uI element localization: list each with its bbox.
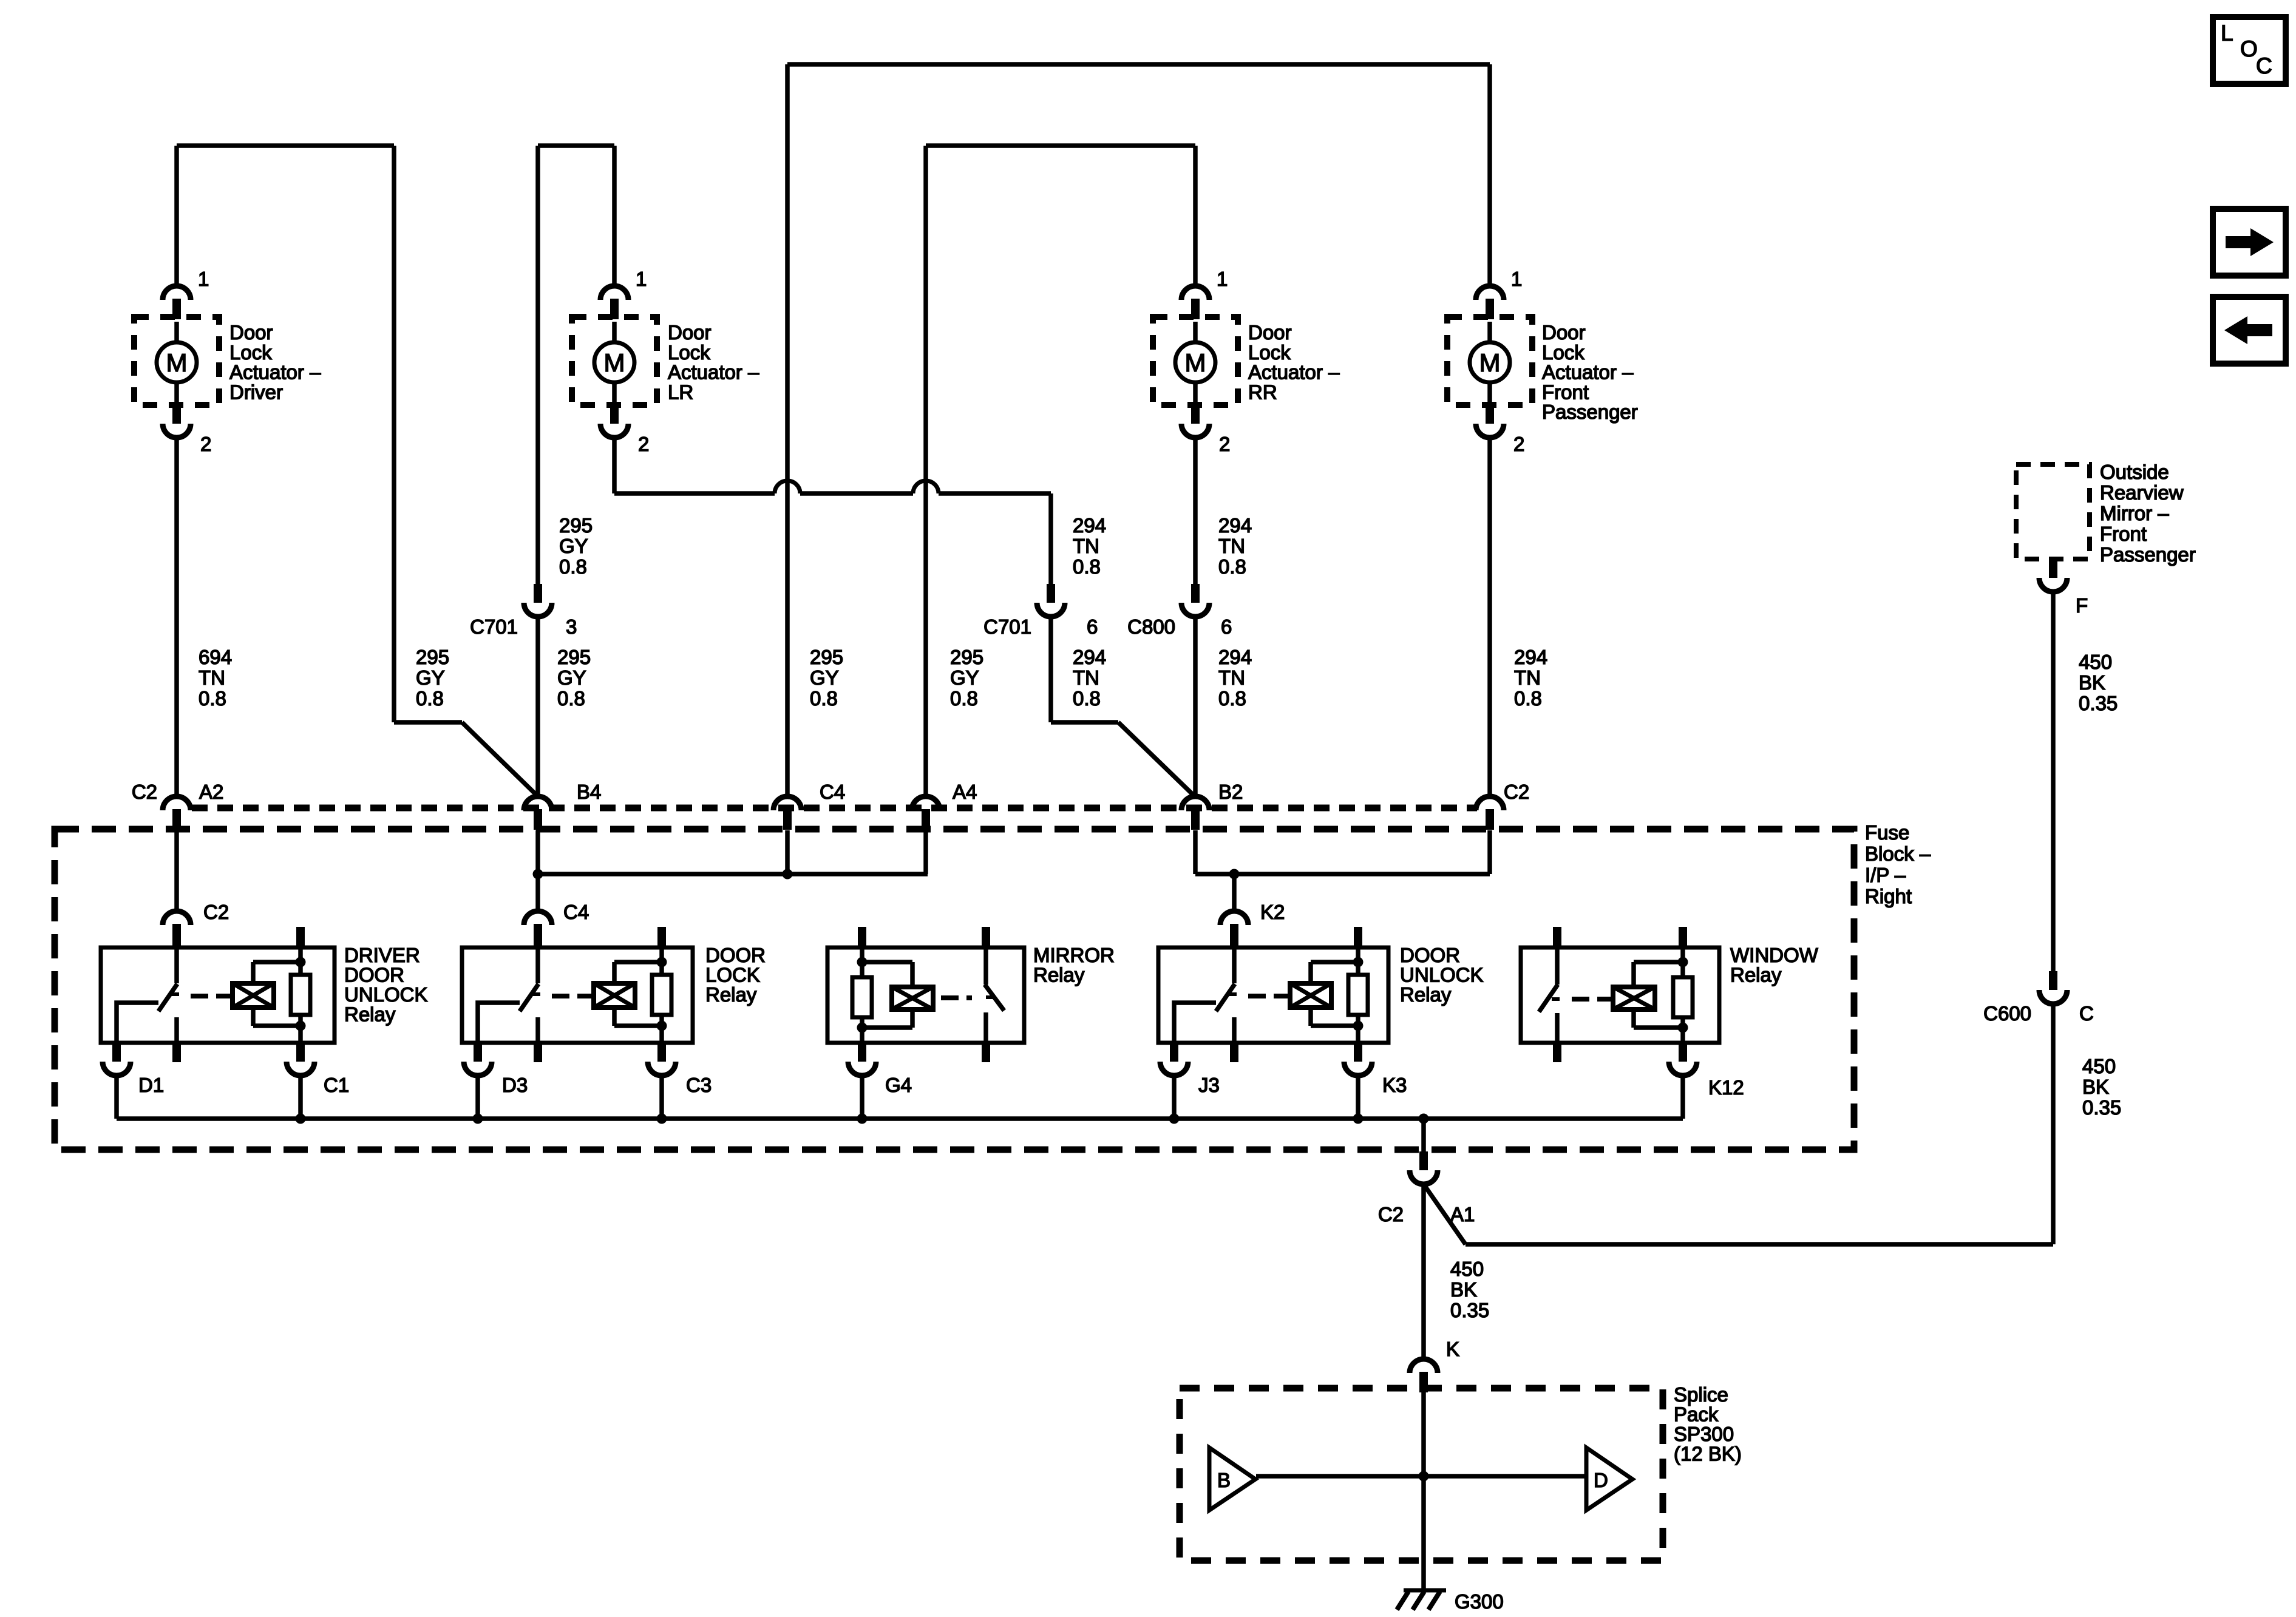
- svg-text:Driver: Driver: [229, 381, 283, 403]
- svg-text:UNLOCK: UNLOCK: [344, 983, 428, 1006]
- svg-text:Door: Door: [229, 321, 273, 344]
- svg-text:Outside: Outside: [2100, 461, 2169, 483]
- svg-text:D3: D3: [502, 1074, 528, 1096]
- svg-text:Relay: Relay: [1400, 983, 1452, 1006]
- svg-text:GY: GY: [557, 666, 586, 689]
- svg-text:(12 BK): (12 BK): [1674, 1443, 1742, 1465]
- svg-text:LR: LR: [668, 381, 693, 403]
- svg-text:D1: D1: [138, 1074, 164, 1096]
- svg-text:Actuator –: Actuator –: [1248, 361, 1340, 384]
- svg-text:0.35: 0.35: [2079, 692, 2118, 714]
- svg-text:1: 1: [1511, 268, 1522, 290]
- svg-text:C701: C701: [470, 615, 518, 638]
- svg-text:BK: BK: [2082, 1076, 2109, 1098]
- svg-text:295: 295: [557, 646, 591, 668]
- svg-text:G300: G300: [1455, 1590, 1504, 1613]
- svg-text:DOOR: DOOR: [344, 964, 404, 986]
- svg-text:B2: B2: [1218, 781, 1243, 803]
- svg-text:D: D: [1594, 1469, 1608, 1491]
- svg-text:1: 1: [198, 268, 209, 290]
- svg-text:M: M: [604, 348, 625, 377]
- svg-text:Actuator –: Actuator –: [229, 361, 321, 384]
- svg-text:DOOR: DOOR: [705, 944, 766, 966]
- svg-text:450: 450: [2082, 1055, 2116, 1077]
- svg-text:0.8: 0.8: [950, 687, 978, 710]
- svg-text:MIRROR: MIRROR: [1033, 944, 1115, 966]
- svg-text:450: 450: [2079, 651, 2112, 673]
- svg-text:K3: K3: [1382, 1074, 1407, 1096]
- svg-text:295: 295: [810, 646, 843, 668]
- svg-text:WINDOW: WINDOW: [1730, 944, 1819, 966]
- svg-text:Relay: Relay: [1033, 964, 1085, 986]
- svg-text:TN: TN: [1073, 535, 1099, 557]
- svg-text:Lock: Lock: [229, 341, 272, 364]
- svg-text:C701: C701: [983, 615, 1031, 638]
- svg-text:B4: B4: [577, 781, 601, 803]
- svg-text:Relay: Relay: [1730, 964, 1782, 986]
- svg-text:C2: C2: [1504, 781, 1529, 803]
- svg-text:C3: C3: [686, 1074, 712, 1096]
- svg-text:C: C: [2079, 1002, 2094, 1025]
- svg-text:3: 3: [566, 615, 577, 638]
- svg-text:294: 294: [1218, 514, 1252, 537]
- svg-text:1: 1: [636, 268, 647, 290]
- svg-text:TN: TN: [1218, 666, 1245, 689]
- svg-text:C600: C600: [1983, 1002, 2031, 1025]
- svg-text:2: 2: [200, 433, 211, 455]
- svg-text:TN: TN: [199, 666, 225, 689]
- svg-text:G4: G4: [885, 1074, 912, 1096]
- svg-text:Relay: Relay: [705, 983, 757, 1006]
- svg-text:2: 2: [1513, 433, 1524, 455]
- svg-text:B: B: [1217, 1469, 1231, 1491]
- svg-text:M: M: [166, 348, 188, 377]
- svg-text:0.8: 0.8: [1514, 687, 1542, 710]
- svg-text:TN: TN: [1073, 666, 1099, 689]
- svg-text:Door: Door: [668, 321, 712, 344]
- svg-text:0.8: 0.8: [1073, 687, 1101, 710]
- svg-text:C2: C2: [203, 901, 229, 923]
- svg-text:RR: RR: [1248, 381, 1277, 403]
- svg-text:C1: C1: [324, 1074, 349, 1096]
- svg-text:2: 2: [638, 433, 649, 455]
- svg-text:Block –: Block –: [1865, 842, 1931, 865]
- svg-text:Lock: Lock: [1248, 341, 1291, 364]
- svg-text:C: C: [2256, 53, 2272, 78]
- svg-text:C2: C2: [132, 781, 157, 803]
- svg-text:A4: A4: [953, 781, 977, 803]
- svg-text:294: 294: [1073, 514, 1106, 537]
- svg-text:295: 295: [416, 646, 449, 668]
- svg-text:6: 6: [1221, 615, 1232, 638]
- svg-text:Fuse: Fuse: [1865, 821, 1909, 844]
- svg-text:GY: GY: [810, 666, 839, 689]
- svg-text:M: M: [1185, 348, 1206, 377]
- svg-text:1: 1: [1217, 268, 1228, 290]
- svg-text:K: K: [1446, 1338, 1459, 1360]
- svg-text:295: 295: [559, 514, 593, 537]
- svg-text:UNLOCK: UNLOCK: [1400, 964, 1484, 986]
- svg-text:294: 294: [1073, 646, 1106, 668]
- svg-text:BK: BK: [2079, 671, 2105, 694]
- svg-text:Right: Right: [1865, 885, 1912, 907]
- svg-text:J3: J3: [1198, 1074, 1220, 1096]
- svg-text:450: 450: [1450, 1258, 1484, 1280]
- svg-text:GY: GY: [416, 666, 445, 689]
- svg-text:DRIVER: DRIVER: [344, 944, 420, 966]
- svg-text:0.8: 0.8: [557, 687, 585, 710]
- svg-text:Actuator –: Actuator –: [1542, 361, 1634, 384]
- svg-text:K2: K2: [1260, 901, 1285, 923]
- svg-text:DOOR: DOOR: [1400, 944, 1460, 966]
- svg-text:0.8: 0.8: [1218, 555, 1246, 578]
- svg-text:BK: BK: [1450, 1278, 1477, 1301]
- svg-text:Lock: Lock: [1542, 341, 1584, 364]
- svg-text:Passenger: Passenger: [2100, 543, 2196, 566]
- svg-text:A1: A1: [1450, 1203, 1475, 1225]
- svg-text:Door: Door: [1248, 321, 1292, 344]
- svg-text:Door: Door: [1542, 321, 1586, 344]
- svg-text:TN: TN: [1514, 666, 1541, 689]
- svg-text:L: L: [2221, 21, 2233, 46]
- svg-text:694: 694: [199, 646, 232, 668]
- svg-text:M: M: [1479, 348, 1501, 377]
- svg-text:Actuator –: Actuator –: [668, 361, 759, 384]
- svg-text:Relay: Relay: [344, 1003, 396, 1026]
- svg-text:0.8: 0.8: [416, 687, 444, 710]
- svg-text:0.8: 0.8: [1218, 687, 1246, 710]
- svg-text:0.35: 0.35: [2082, 1096, 2121, 1119]
- svg-text:C4: C4: [820, 781, 845, 803]
- svg-text:K12: K12: [1708, 1076, 1744, 1099]
- svg-text:0.8: 0.8: [1073, 555, 1101, 578]
- svg-text:O: O: [2240, 36, 2258, 61]
- svg-text:GY: GY: [559, 535, 588, 557]
- svg-text:Mirror –: Mirror –: [2100, 502, 2169, 524]
- svg-text:0.35: 0.35: [1450, 1299, 1489, 1321]
- svg-text:294: 294: [1218, 646, 1252, 668]
- svg-text:Lock: Lock: [668, 341, 710, 364]
- svg-text:I/P –: I/P –: [1865, 864, 1906, 886]
- svg-text:Rearview: Rearview: [2100, 481, 2184, 504]
- svg-text:Front: Front: [1542, 381, 1589, 403]
- svg-text:TN: TN: [1218, 535, 1245, 557]
- svg-text:C2: C2: [1378, 1203, 1404, 1225]
- svg-text:Front: Front: [2100, 523, 2147, 545]
- svg-text:Splice: Splice: [1674, 1383, 1728, 1406]
- svg-text:2: 2: [1219, 433, 1230, 455]
- svg-text:SP300: SP300: [1674, 1423, 1734, 1445]
- svg-text:Pack: Pack: [1674, 1403, 1719, 1426]
- svg-text:A2: A2: [199, 781, 223, 803]
- svg-text:C800: C800: [1127, 615, 1175, 638]
- svg-text:0.8: 0.8: [810, 687, 838, 710]
- svg-text:6: 6: [1087, 615, 1098, 638]
- svg-text:295: 295: [950, 646, 983, 668]
- svg-text:Passenger: Passenger: [1542, 401, 1638, 423]
- svg-text:LOCK: LOCK: [705, 964, 760, 986]
- svg-text:GY: GY: [950, 666, 979, 689]
- svg-text:F: F: [2076, 594, 2088, 617]
- svg-text:0.8: 0.8: [559, 555, 587, 578]
- svg-text:294: 294: [1514, 646, 1547, 668]
- svg-text:0.8: 0.8: [199, 687, 226, 710]
- svg-text:C4: C4: [563, 901, 589, 923]
